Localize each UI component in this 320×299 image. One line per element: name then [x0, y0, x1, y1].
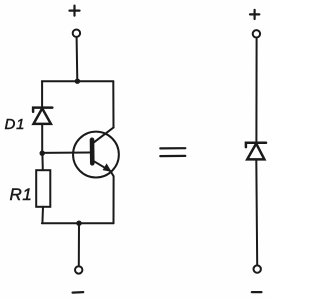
wire bottom node to - terminal — [78, 223, 80, 266]
wire from + terminal to top node — [76, 37, 79, 81]
terminal + (right circuit, open circle) — [253, 30, 260, 37]
equivalence sign = — [160, 148, 185, 156]
wire top horizontal — [42, 80, 113, 82]
terminal + (left circuit, open circle) — [73, 30, 80, 37]
node top junction — [75, 79, 80, 84]
plus terminal label (left circuit) — [70, 6, 80, 16]
zener diode D1 — [33, 108, 52, 124]
wire from zener anode to - terminal — [255, 159, 258, 265]
wire base (to transistor) — [42, 152, 90, 154]
wire from + terminal to zener cathode — [255, 38, 257, 143]
wire emitter to bottom rail — [113, 176, 115, 223]
plus terminal label (right circuit) — [250, 10, 259, 19]
wire R1 bottom to bottom rail — [41, 207, 44, 223]
zener diode (right circuit) — [246, 143, 266, 160]
wire base node to R1 top — [41, 153, 43, 170]
transistor Q1 collector stroke — [93, 127, 114, 143]
svg-text:D1: D1 — [5, 116, 26, 133]
node bottom junction — [76, 221, 81, 226]
wire left vertical to D1 cathode — [41, 81, 43, 107]
node base junction — [40, 151, 45, 156]
transistor Q1 base bar — [90, 140, 95, 164]
transistor Q1 emitter stroke with arrow — [93, 161, 110, 171]
minus terminal label (right circuit) — [252, 291, 262, 293]
minus terminal label (left circuit) — [73, 291, 84, 294]
terminal - (right circuit, open circle) — [254, 265, 261, 272]
resistor R1 — [36, 170, 50, 207]
terminal - (left circuit, open circle) — [75, 266, 82, 273]
wire bottom horizontal — [42, 222, 114, 224]
transistor Q1 circle — [73, 132, 119, 178]
wire collector to top rail — [112, 81, 114, 127]
svg-text:R1: R1 — [10, 185, 33, 204]
wire from D1 anode to base node — [41, 124, 43, 153]
